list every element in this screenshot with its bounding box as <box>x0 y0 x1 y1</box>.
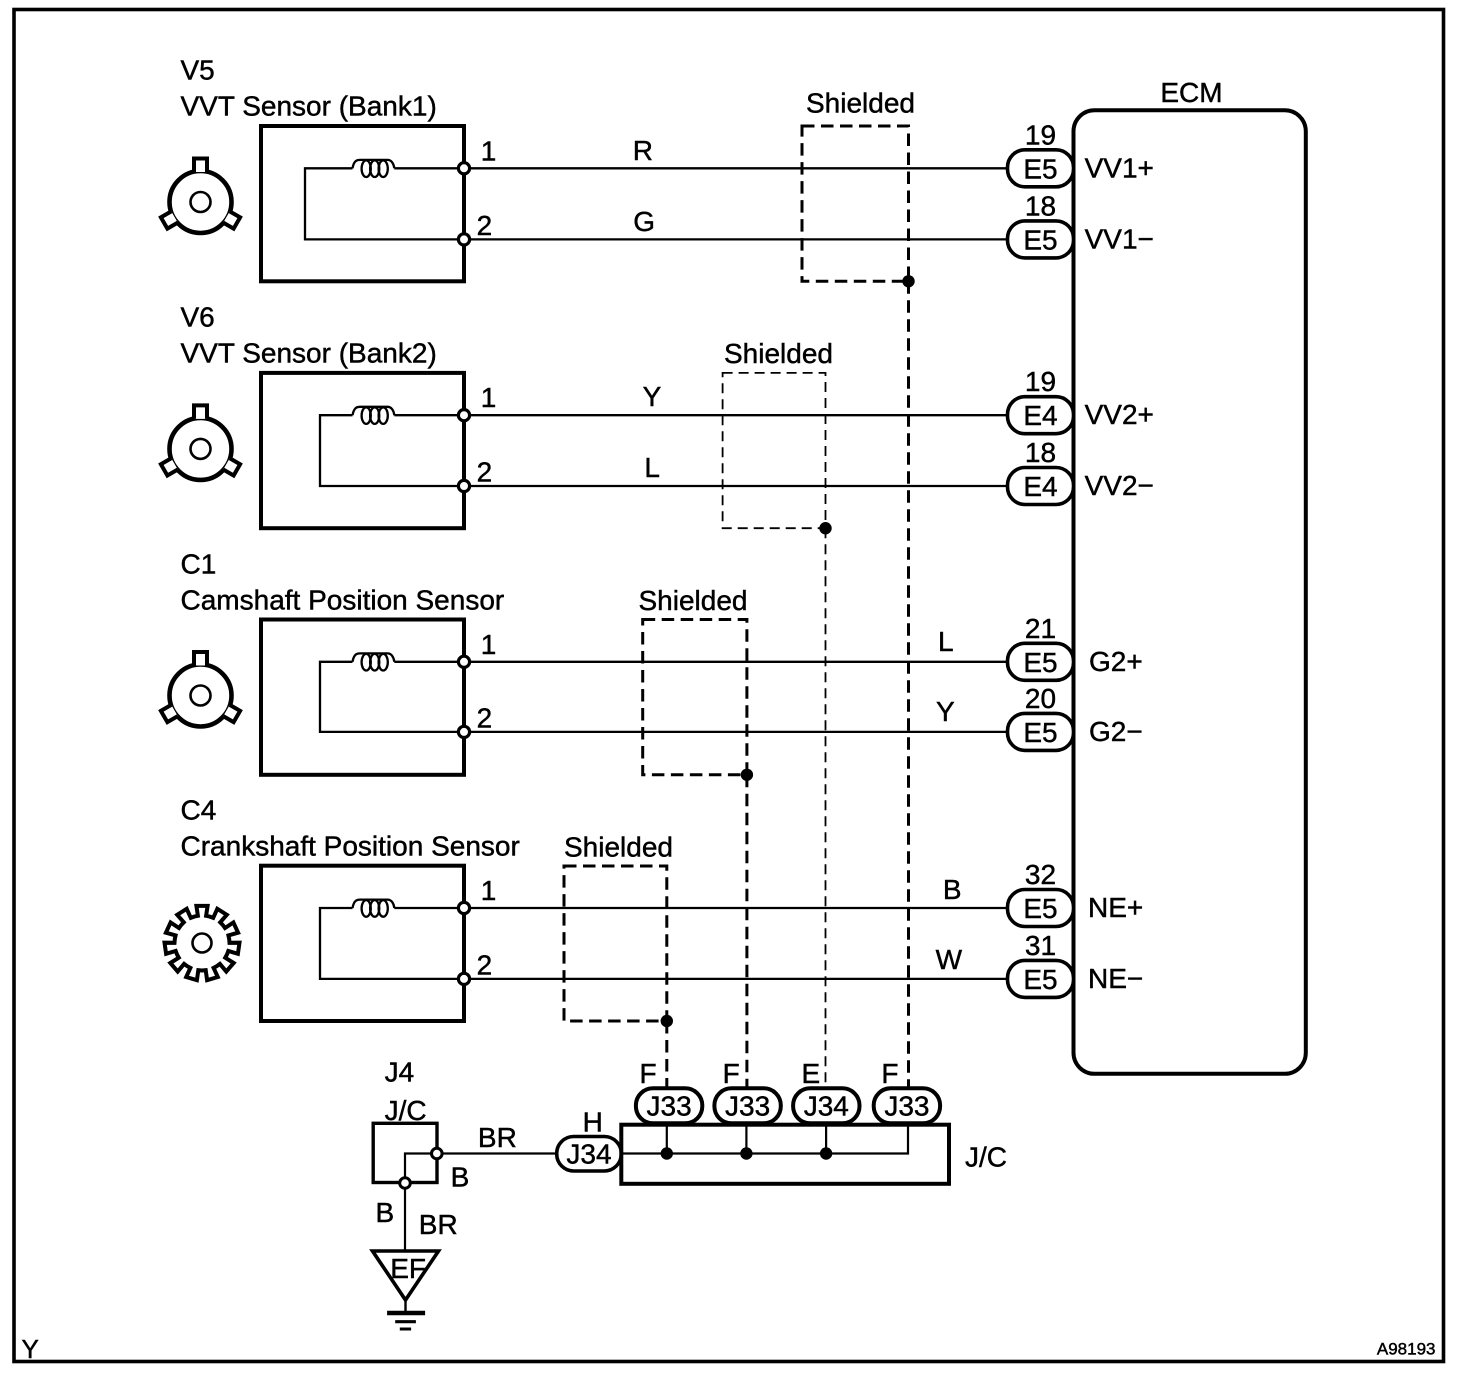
shield box (C1) <box>643 620 747 775</box>
svg-text:C4: C4 <box>181 795 217 826</box>
svg-text:31: 31 <box>1025 930 1056 961</box>
svg-text:J/C: J/C <box>385 1095 427 1126</box>
wire C4 pin2 to ECM <box>464 978 1008 980</box>
sensor C1 internal wire loop <box>320 662 464 732</box>
sensor C1 pickup coil <box>353 653 395 661</box>
ECM pin 19 connector E5 oval (VV1+) <box>1008 150 1074 187</box>
ECM pin 19 connector E4 oval (VV2+) <box>1008 397 1074 434</box>
svg-text:VV1+: VV1+ <box>1085 152 1154 183</box>
svg-text:2: 2 <box>477 456 493 487</box>
svg-text:19: 19 <box>1025 119 1056 150</box>
junction connector J34 oval (H) <box>557 1137 622 1172</box>
svg-text:J4: J4 <box>385 1057 415 1088</box>
svg-text:19: 19 <box>1025 366 1056 397</box>
J/C bus stub 3 <box>825 1126 827 1154</box>
sensor V6 pickup coil <box>353 407 395 415</box>
svg-text:Shielded: Shielded <box>806 88 915 119</box>
J/C bus stub 1 <box>666 1126 668 1154</box>
sensor V5 internal wire loop <box>305 168 464 239</box>
shield junction dot (C4) <box>661 1015 673 1027</box>
shield drain wire (C1) <box>745 775 748 1087</box>
wire J4 to ground (BR) <box>404 1189 406 1252</box>
svg-text:A98193: A98193 <box>1377 1340 1436 1359</box>
wire V6 pin2 to ECM <box>464 485 1008 487</box>
sensor C1 pin 1 <box>458 656 469 667</box>
sensor C4 box <box>261 866 464 1021</box>
J/C bus junction dot 3 <box>820 1147 832 1159</box>
wire V6 pin1 to ECM <box>394 414 1007 416</box>
svg-text:B: B <box>451 1162 470 1193</box>
svg-text:V6: V6 <box>181 302 215 333</box>
shield drain wire (V5) <box>907 281 910 1087</box>
ECM pin 32 connector E5 oval (NE+) <box>1008 890 1074 927</box>
sensor C4 pin 1 <box>458 902 469 913</box>
shield drain wire (C4) <box>665 1021 668 1087</box>
sensor V5 pin 1 <box>458 163 469 174</box>
shield junction dot (V5) <box>902 275 914 287</box>
J/C bus stub 2 <box>745 1126 747 1154</box>
sensor V6 internal wire loop <box>320 415 464 486</box>
svg-text:G2−: G2− <box>1089 716 1143 747</box>
ground bar 1 <box>387 1311 425 1315</box>
sensor V6 pin 2 <box>458 480 469 491</box>
svg-text:2: 2 <box>477 210 493 241</box>
svg-text:E5: E5 <box>1023 153 1057 184</box>
svg-text:E4: E4 <box>1023 471 1057 502</box>
sensor C4 pickup coil <box>353 900 395 908</box>
svg-text:Shielded: Shielded <box>639 585 748 616</box>
sensor C1 pin 2 <box>458 726 469 737</box>
svg-text:J34: J34 <box>566 1139 611 1170</box>
svg-text:F: F <box>640 1058 657 1089</box>
svg-text:E5: E5 <box>1023 224 1057 255</box>
wire C1 pin1 to ECM <box>394 661 1007 663</box>
J/C bus junction dot 2 <box>740 1147 752 1159</box>
svg-text:Y: Y <box>22 1334 39 1364</box>
wire J4 to J34 (BR) <box>442 1152 557 1154</box>
svg-text:E5: E5 <box>1023 647 1057 678</box>
sensor C4 connector icon <box>165 906 240 980</box>
svg-text:Y: Y <box>643 381 662 412</box>
sensor V5 pickup coil <box>353 160 395 168</box>
shield box (V6) <box>723 373 826 528</box>
svg-text:R: R <box>633 135 653 166</box>
ECM pin 18 connector E5 oval (VV1−) <box>1008 221 1074 258</box>
svg-text:B: B <box>376 1197 395 1228</box>
svg-text:J33: J33 <box>647 1091 692 1122</box>
sensor C1 connector icon <box>161 652 240 727</box>
svg-text:NE+: NE+ <box>1088 892 1143 923</box>
svg-text:EF: EF <box>390 1253 426 1284</box>
svg-text:BR: BR <box>419 1209 458 1240</box>
svg-text:1: 1 <box>481 382 497 413</box>
svg-text:F: F <box>723 1058 740 1089</box>
shield drain wire (V6) <box>825 528 827 1087</box>
svg-text:C1: C1 <box>181 549 217 580</box>
ground stem <box>404 1299 406 1313</box>
svg-text:L: L <box>644 452 660 483</box>
ground bar 3 <box>400 1328 411 1331</box>
svg-text:F: F <box>881 1058 898 1089</box>
sensor V6 box <box>261 373 464 528</box>
junction connector J33 oval (F) <box>636 1088 702 1123</box>
junction connector J33 oval (F) <box>714 1088 780 1123</box>
shield junction dot (C1) <box>741 769 753 781</box>
ECM pin 31 connector E5 oval (NE−) <box>1008 960 1074 997</box>
svg-text:18: 18 <box>1025 190 1056 221</box>
shield junction dot (V6) <box>819 522 831 534</box>
shield box (V5) <box>802 126 909 281</box>
svg-text:V5: V5 <box>181 55 215 86</box>
sensor V6 connector icon <box>161 405 240 480</box>
svg-text:B: B <box>943 874 962 905</box>
svg-text:Y: Y <box>936 696 955 727</box>
J4 side pin B <box>432 1148 443 1159</box>
sensor V5 box <box>261 126 464 281</box>
svg-text:Shielded: Shielded <box>724 338 833 369</box>
svg-text:G: G <box>633 206 655 237</box>
svg-text:ECM: ECM <box>1160 77 1222 108</box>
svg-text:E5: E5 <box>1023 893 1057 924</box>
sensor V5 pin 2 <box>458 234 469 245</box>
svg-text:VV2+: VV2+ <box>1085 399 1154 430</box>
sensor V5 connector icon <box>161 159 240 234</box>
svg-text:18: 18 <box>1025 437 1056 468</box>
ECM box <box>1074 110 1306 1074</box>
junction connector J34 oval (E) <box>793 1088 859 1123</box>
svg-text:E5: E5 <box>1023 717 1057 748</box>
svg-text:VVT Sensor (Bank1): VVT Sensor (Bank1) <box>181 91 437 122</box>
J4 internal wire <box>405 1154 431 1179</box>
svg-text:1: 1 <box>481 875 497 906</box>
ECM pin 18 connector E4 oval (VV2−) <box>1008 468 1074 505</box>
svg-text:Crankshaft Position Sensor: Crankshaft Position Sensor <box>181 831 520 862</box>
svg-text:VVT Sensor (Bank2): VVT Sensor (Bank2) <box>181 338 437 369</box>
svg-text:E4: E4 <box>1023 400 1057 431</box>
svg-text:1: 1 <box>481 135 497 166</box>
ECM pin 21 connector E5 oval (G2+) <box>1008 643 1074 680</box>
svg-text:21: 21 <box>1025 613 1056 644</box>
svg-text:20: 20 <box>1025 683 1056 714</box>
svg-text:J/C: J/C <box>965 1142 1007 1173</box>
svg-text:1: 1 <box>481 629 497 660</box>
svg-text:L: L <box>938 626 954 657</box>
sensor C4 pin 2 <box>458 973 469 984</box>
svg-text:VV2−: VV2− <box>1085 470 1154 501</box>
wire C1 pin2 to ECM <box>464 731 1008 733</box>
svg-text:32: 32 <box>1025 859 1056 890</box>
svg-text:J34: J34 <box>804 1091 849 1122</box>
J/C bus junction dot 1 <box>661 1147 673 1159</box>
svg-text:J33: J33 <box>884 1091 929 1122</box>
wire V5 pin2 to ECM <box>464 238 1008 240</box>
svg-text:Shielded: Shielded <box>564 832 673 863</box>
svg-text:VV1−: VV1− <box>1085 223 1154 254</box>
junction connector J33 oval (F) <box>874 1088 940 1123</box>
svg-text:2: 2 <box>477 702 493 733</box>
svg-text:J33: J33 <box>725 1091 770 1122</box>
J/C junction box <box>621 1125 949 1184</box>
svg-text:2: 2 <box>477 949 493 980</box>
junction connector J4 box <box>373 1123 437 1182</box>
J4 bottom pin B <box>400 1178 411 1189</box>
svg-text:NE−: NE− <box>1088 963 1143 994</box>
shield box (C4) <box>564 866 667 1021</box>
svg-text:W: W <box>936 944 963 975</box>
sensor V6 pin 1 <box>458 410 469 421</box>
svg-text:H: H <box>583 1107 603 1138</box>
ECM pin 20 connector E5 oval (G2−) <box>1008 713 1074 750</box>
sensor C4 internal wire loop <box>320 908 464 979</box>
ground symbol EF triangle <box>373 1251 439 1300</box>
wire V5 pin1 to ECM <box>394 167 1007 169</box>
sensor C1 box <box>261 620 464 775</box>
svg-text:Camshaft Position Sensor: Camshaft Position Sensor <box>181 585 505 616</box>
wire C4 pin1 to ECM <box>394 907 1007 909</box>
ground bar 2 <box>395 1320 416 1323</box>
svg-text:BR: BR <box>478 1122 517 1153</box>
J/C internal bus wire <box>621 1126 908 1154</box>
svg-text:E5: E5 <box>1023 964 1057 995</box>
svg-text:G2+: G2+ <box>1089 646 1143 677</box>
svg-text:E: E <box>802 1058 821 1089</box>
